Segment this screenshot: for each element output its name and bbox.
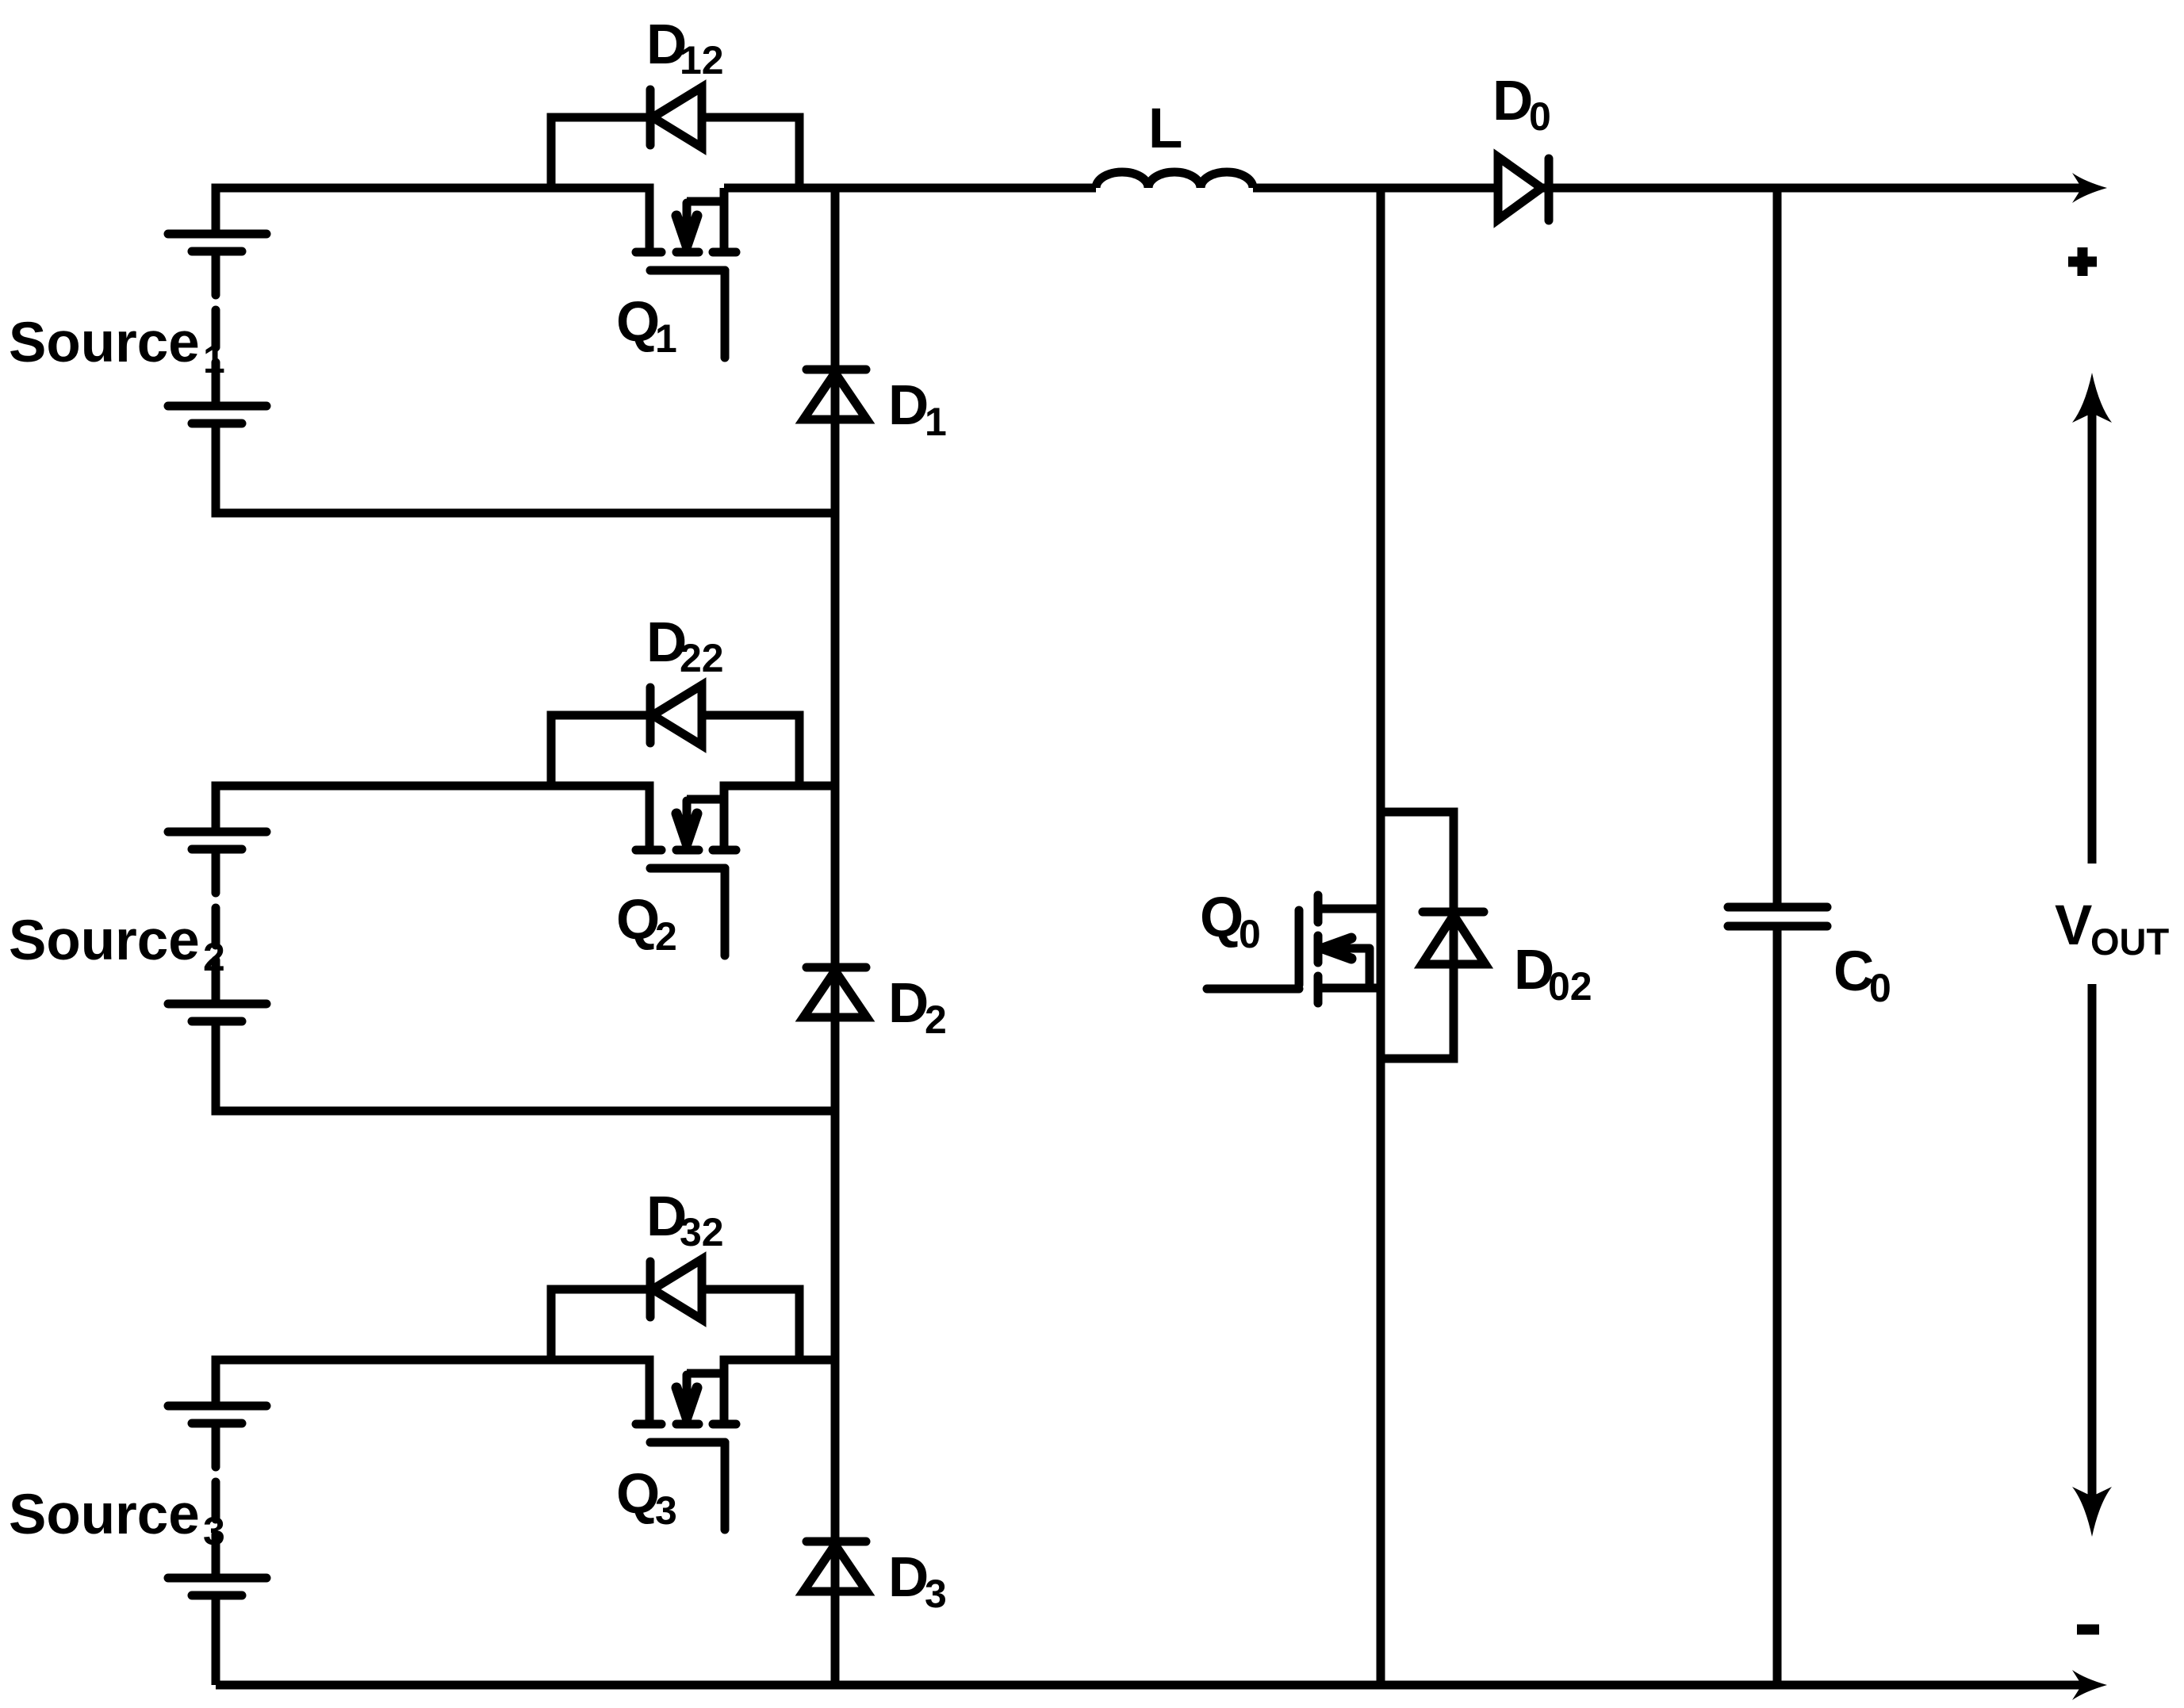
inductor L bbox=[1096, 172, 1253, 188]
diode D02 bbox=[1422, 912, 1485, 964]
capacitor C0 bbox=[1728, 188, 1827, 1685]
wire Q1 source to bus bbox=[720, 188, 729, 248]
svg-text:2: 2 bbox=[203, 935, 225, 979]
svg-text:02: 02 bbox=[1548, 964, 1592, 1009]
svg-text:Source: Source bbox=[9, 910, 200, 972]
wire Source2 negative lead bbox=[216, 1021, 835, 1111]
svg-text:0: 0 bbox=[1869, 966, 1891, 1010]
wire inductor to D0 anode bbox=[1253, 184, 1498, 193]
wire Q3 source to bus bbox=[724, 1360, 835, 1420]
svg-text:0: 0 bbox=[1529, 94, 1551, 139]
Vout arrow down bbox=[2072, 984, 2112, 1537]
wire Source2 positive lead, top rail to Q2 drain bbox=[216, 786, 649, 846]
svg-text:3: 3 bbox=[655, 1488, 677, 1533]
wire D12 bypass branch bbox=[551, 117, 649, 188]
svg-text:22: 22 bbox=[680, 636, 724, 680]
battery Source3 bbox=[168, 1406, 266, 1595]
svg-text:0: 0 bbox=[1239, 912, 1261, 956]
svg-text:Source: Source bbox=[9, 312, 200, 374]
wire D32 bypass branch bbox=[551, 1289, 649, 1360]
wire top main rail from Q1 to inductor bbox=[724, 184, 1096, 193]
svg-text:C: C bbox=[1833, 940, 1874, 1003]
transistor Q3 bbox=[636, 1373, 736, 1530]
wire Source1 positive lead, top rail to Q1 drain bbox=[216, 188, 649, 248]
svg-text:2: 2 bbox=[925, 998, 947, 1042]
svg-text:3: 3 bbox=[203, 1509, 225, 1553]
svg-text:Q: Q bbox=[616, 291, 660, 354]
node plus output positive terminal bbox=[2068, 247, 2097, 276]
svg-text:12: 12 bbox=[680, 38, 724, 82]
wire Source3 negative lead bbox=[212, 1595, 220, 1685]
output arrow top right bbox=[2072, 173, 2107, 203]
battery Source1 bbox=[168, 234, 266, 423]
diode D2 bbox=[803, 967, 867, 1017]
wire D0 cathode to output plus terminal bbox=[1543, 184, 2082, 193]
svg-text:Q: Q bbox=[1200, 887, 1243, 949]
diode D0 bbox=[1498, 157, 1549, 220]
svg-text:D: D bbox=[888, 972, 929, 1035]
svg-text:3: 3 bbox=[925, 1572, 947, 1616]
wire Source1 negative lead bbox=[216, 423, 835, 513]
transistor Q2 bbox=[636, 799, 736, 955]
diode D1 bbox=[803, 370, 867, 419]
diode D22 bbox=[650, 685, 702, 745]
output arrow bottom right bbox=[2072, 1670, 2107, 1700]
svg-text:V: V bbox=[2055, 894, 2092, 957]
battery Source2 bbox=[168, 832, 266, 1021]
wire bottom main rail bbox=[216, 1681, 2082, 1690]
transistor Q0 bbox=[1207, 895, 1381, 1003]
svg-text:D: D bbox=[1492, 70, 1533, 132]
diode D12 bbox=[650, 87, 702, 147]
wire Q0 branch vertical bbox=[1377, 188, 1385, 1685]
svg-text:32: 32 bbox=[680, 1210, 724, 1254]
svg-text:D: D bbox=[888, 374, 929, 437]
transistor Q1 bbox=[636, 201, 736, 358]
svg-text:OUT: OUT bbox=[2090, 921, 2170, 963]
diode D3 bbox=[803, 1541, 867, 1591]
svg-text:Q: Q bbox=[616, 1463, 660, 1526]
wire Q2 source to bus bbox=[724, 786, 835, 846]
svg-text:Q: Q bbox=[616, 889, 660, 952]
svg-text:1: 1 bbox=[925, 400, 947, 444]
Vout arrow up bbox=[2072, 373, 2112, 864]
svg-text:1: 1 bbox=[203, 337, 225, 381]
wire D02 parallel branch bbox=[1381, 812, 1454, 1059]
diode D32 bbox=[650, 1259, 702, 1319]
wire vertical bus shared by D1 D2 D3 bbox=[831, 188, 840, 1685]
svg-text:2: 2 bbox=[655, 914, 677, 959]
svg-text:D: D bbox=[888, 1546, 929, 1609]
wire Source3 positive lead, top rail to Q3 drain bbox=[216, 1360, 649, 1420]
svg-text:Source: Source bbox=[9, 1484, 200, 1546]
node minus output negative terminal bbox=[2077, 1625, 2099, 1635]
svg-text:L: L bbox=[1148, 98, 1182, 160]
svg-text:1: 1 bbox=[655, 316, 677, 361]
wire D22 bypass branch bbox=[551, 715, 649, 786]
